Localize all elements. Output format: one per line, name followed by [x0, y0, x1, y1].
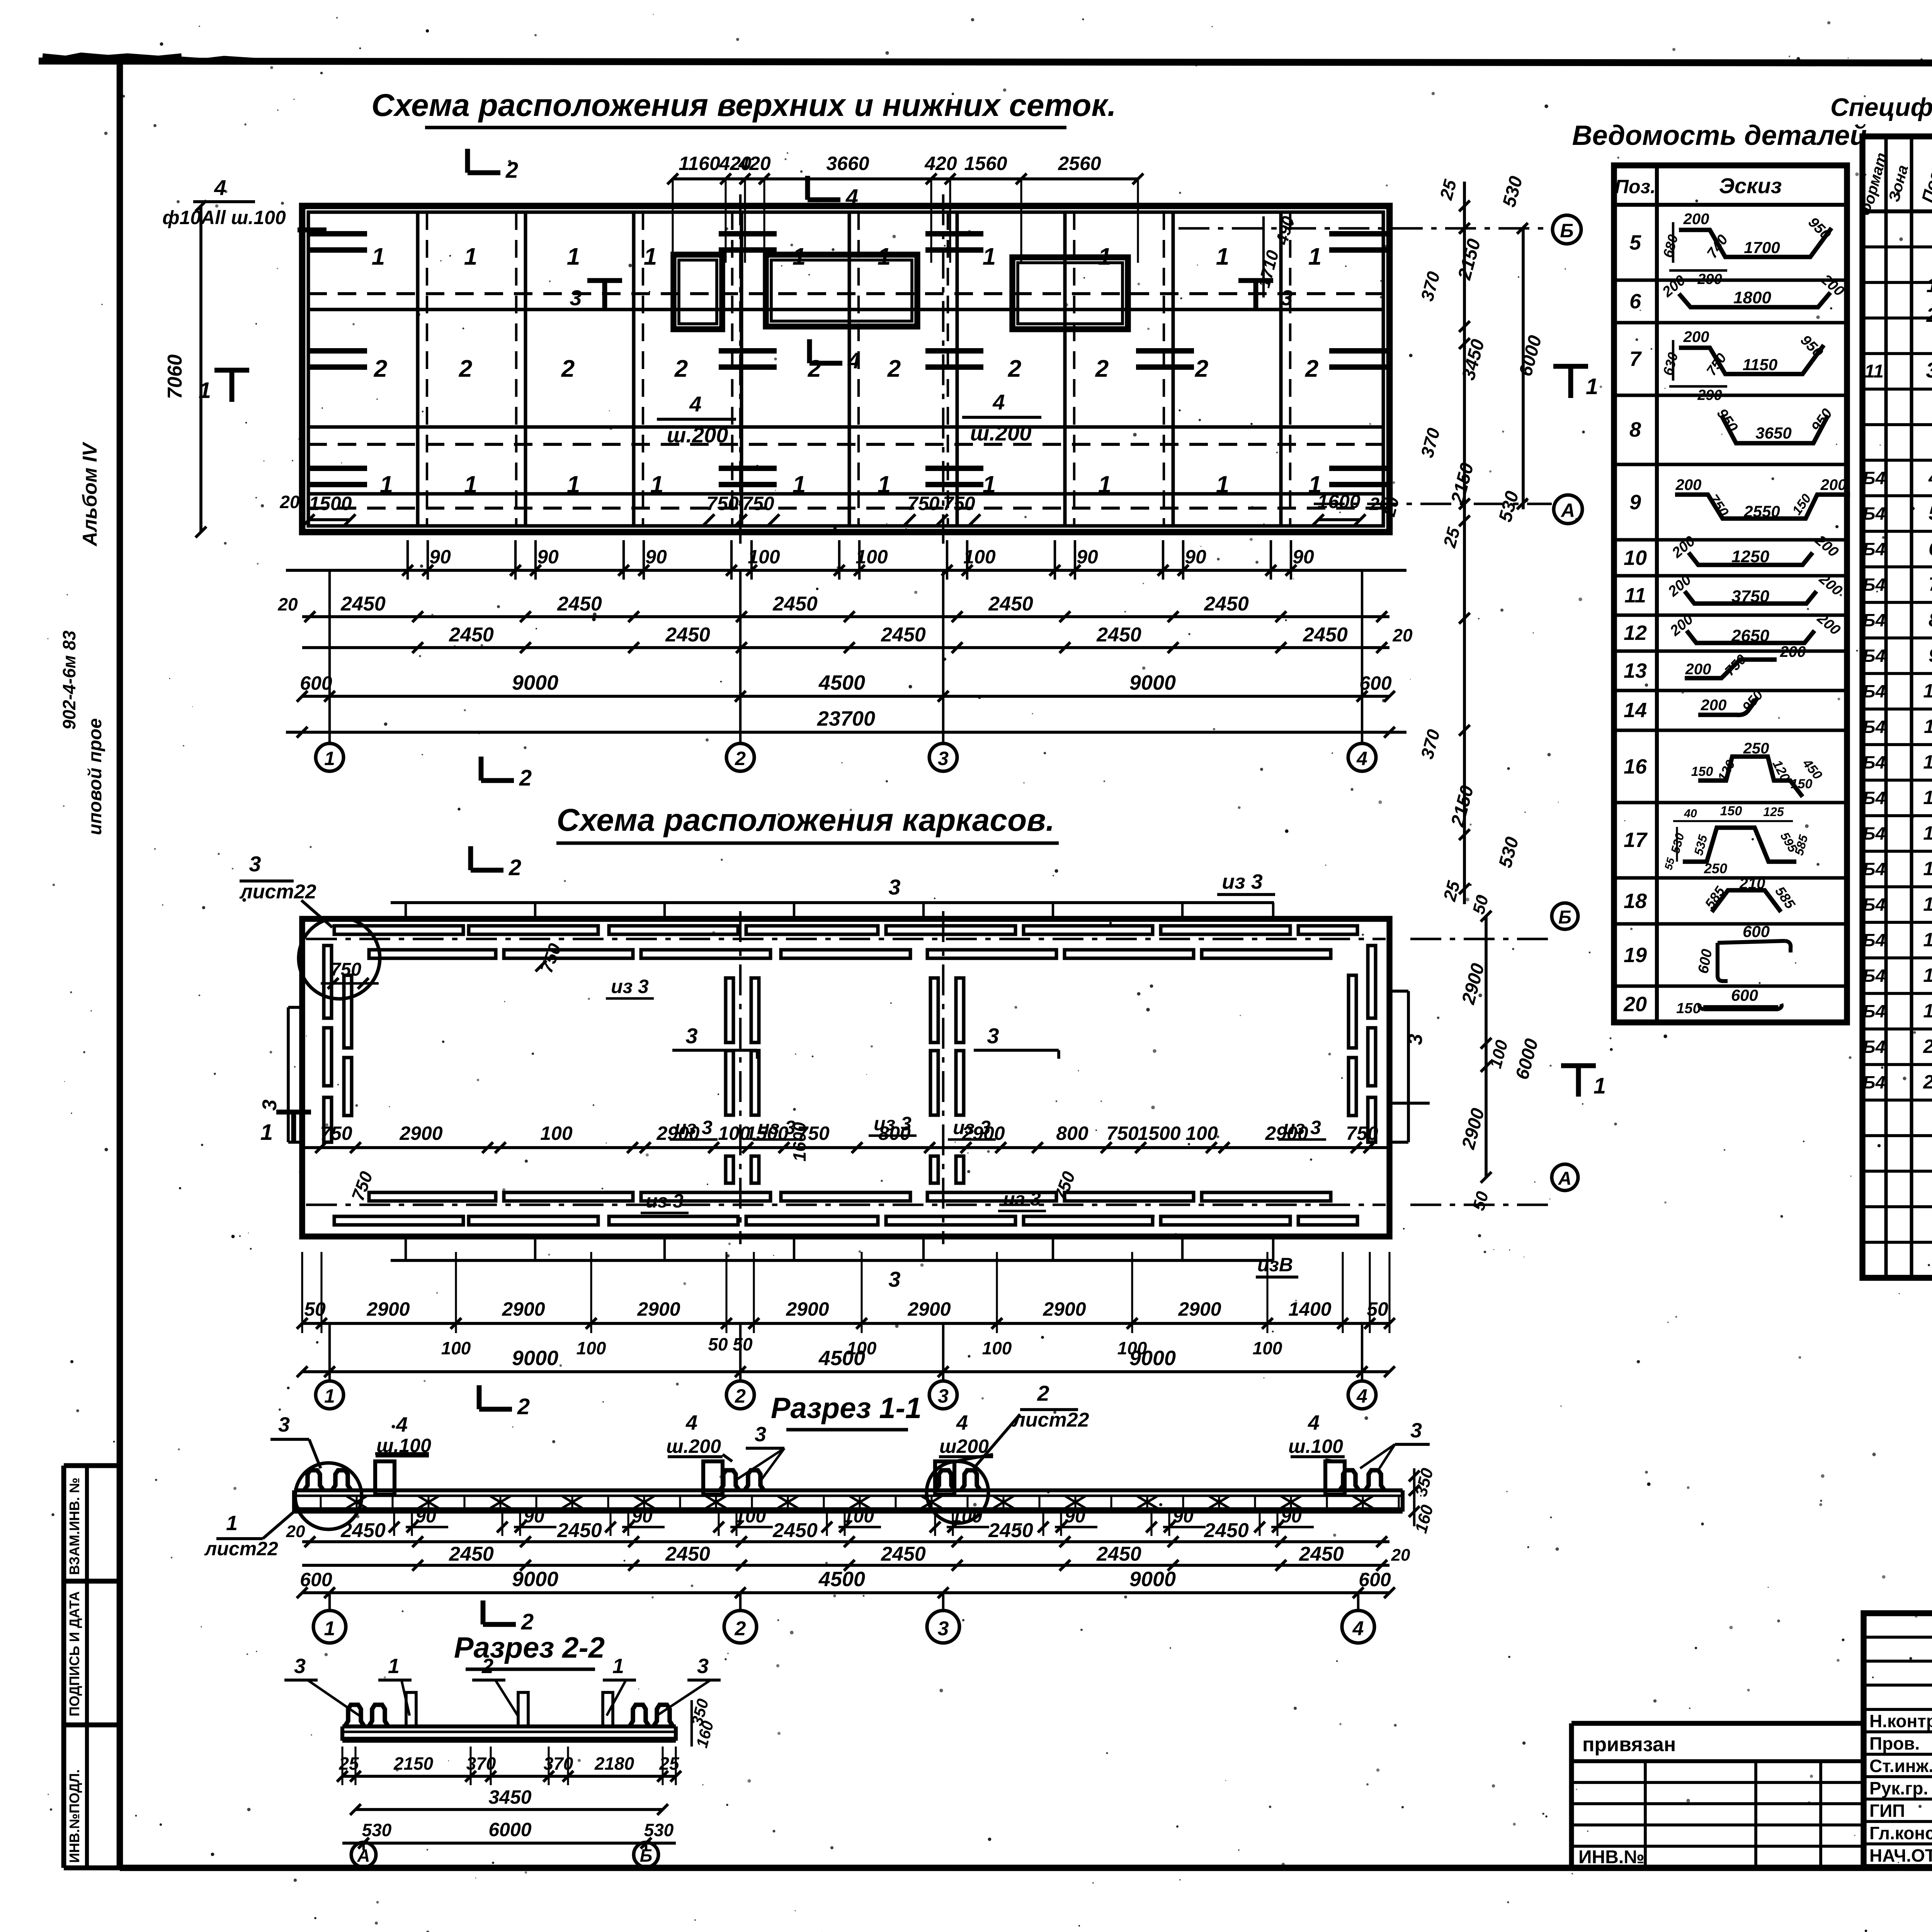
svg-text:20: 20	[1391, 1546, 1410, 1565]
specification contents	[1863, 214, 1932, 1271]
svg-text:2: 2	[481, 1655, 493, 1678]
svg-text:2450: 2450	[988, 593, 1033, 615]
svg-text:2: 2	[374, 355, 387, 382]
svg-text:Б4: Б4	[1863, 1037, 1885, 1057]
axis circles top plan	[316, 570, 1376, 771]
svg-text:ВЗАМ.ИНВ. №: ВЗАМ.ИНВ. №	[66, 1478, 82, 1575]
karkas right outside bracket	[1389, 991, 1430, 1142]
svg-text:2: 2	[735, 1385, 746, 1407]
section mark 2 below top plan	[481, 757, 532, 791]
svg-text:ИНВ.№: ИНВ.№	[1578, 1847, 1645, 1867]
svg-text:3: 3	[278, 1413, 290, 1436]
section 2-2 leader labels	[284, 1655, 721, 1716]
details table header	[1615, 173, 1782, 198]
svg-text:9: 9	[1629, 491, 1641, 514]
mesh edge tick bars	[309, 234, 1387, 485]
svg-text:Б: Б	[640, 1845, 653, 1866]
svg-text:4: 4	[1928, 467, 1932, 488]
svg-text:750: 750	[1106, 1122, 1139, 1144]
svg-text:17: 17	[1624, 828, 1648, 852]
svg-text:2900: 2900	[907, 1298, 951, 1320]
svg-text:200: 200	[1675, 476, 1702, 493]
labels 490 1710 opening3	[1255, 214, 1298, 298]
right labels 350 160 razrez22	[687, 1697, 717, 1750]
svg-text:2560: 2560	[1058, 153, 1101, 174]
svg-text:ш200: ш200	[939, 1435, 989, 1457]
details sketches	[1659, 211, 1850, 1017]
svg-text:1560: 1560	[964, 153, 1007, 174]
svg-text:4: 4	[1356, 748, 1367, 769]
svg-text:1: 1	[324, 1385, 335, 1407]
svg-text:Б4: Б4	[1863, 717, 1885, 737]
svg-text:ш.100: ш.100	[1288, 1435, 1343, 1457]
svg-text:1: 1	[464, 471, 477, 498]
svg-text:ГИП: ГИП	[1869, 1801, 1905, 1821]
svg-text:750: 750	[330, 959, 361, 980]
karkas left outside bracket	[259, 1007, 302, 1142]
svg-text:150: 150	[1691, 764, 1713, 779]
svg-text:530: 530	[644, 1820, 674, 1840]
svg-text:200: 200	[1683, 211, 1709, 228]
svg-text:7: 7	[1629, 347, 1642, 371]
svg-text:из 3: из 3	[646, 1190, 684, 1212]
label 4 sh200 left	[657, 392, 736, 447]
svg-text:Рук.гр.: Рук.гр.	[1869, 1778, 1928, 1798]
svg-text:1: 1	[878, 471, 891, 498]
svg-text:привязан: привязан	[1582, 1733, 1676, 1756]
svg-text:100: 100	[1253, 1338, 1282, 1358]
svg-text:6000: 6000	[488, 1819, 531, 1840]
svg-text:200: 200	[1820, 476, 1847, 493]
vertical karkas bars	[324, 946, 1376, 1183]
svg-text:2450: 2450	[557, 593, 602, 615]
svg-text:2450: 2450	[1204, 593, 1249, 615]
svg-text:Ст.инж.: Ст.инж.	[1869, 1756, 1932, 1776]
svg-text:Б: Б	[1560, 220, 1573, 241]
plan outer rectangle	[302, 206, 1389, 532]
svg-text:16: 16	[1923, 893, 1932, 915]
specification table grid	[1862, 136, 1932, 1278]
svg-text:14: 14	[1624, 699, 1647, 722]
svg-text:ИНВ.№ПОДЛ.: ИНВ.№ПОДЛ.	[66, 1769, 82, 1863]
title scheme of karkas layout	[556, 803, 1059, 843]
svg-text:9: 9	[1929, 645, 1932, 666]
svg-text:1: 1	[388, 1655, 400, 1678]
svg-text:210: 210	[1739, 875, 1765, 892]
svg-text:2900: 2900	[786, 1298, 829, 1320]
bottom dims razrez 2-2	[337, 1747, 681, 1849]
svg-text:2450: 2450	[340, 1519, 386, 1542]
vertical text Album IV	[79, 441, 101, 547]
svg-text:2450: 2450	[1303, 624, 1348, 646]
svg-text:21: 21	[1923, 1071, 1932, 1093]
svg-text:4: 4	[1356, 1385, 1367, 1407]
axis B circle karkas	[1410, 903, 1578, 939]
svg-text:из 3: из 3	[758, 1117, 796, 1138]
svg-text:1500: 1500	[1138, 1122, 1180, 1144]
svg-text:1: 1	[1098, 243, 1111, 270]
section mark 3 left	[570, 281, 622, 310]
svg-text:Поз.: Поз.	[1615, 176, 1656, 197]
svg-text:4: 4	[685, 1411, 697, 1434]
svg-text:15: 15	[1923, 858, 1932, 879]
svg-text:2650: 2650	[1731, 626, 1769, 645]
svg-text:7060: 7060	[164, 354, 186, 399]
svg-text:2: 2	[1008, 355, 1021, 382]
svg-text:1: 1	[1927, 274, 1932, 297]
svg-text:1: 1	[1308, 243, 1321, 270]
label 4 sh100 top left	[162, 175, 327, 230]
note kopiroval	[1828, 1930, 1932, 1932]
svg-text:ш.200: ш.200	[666, 1435, 721, 1457]
svg-text:Разрез 2-2: Разрез 2-2	[454, 1631, 605, 1664]
svg-text:750: 750	[706, 493, 739, 514]
svg-text:2: 2	[521, 1609, 534, 1634]
svg-text:Б4: Б4	[1863, 681, 1885, 701]
svg-text:4: 4	[992, 390, 1005, 414]
section 1-1 karkas hats	[295, 1461, 1387, 1529]
svg-text:Б4: Б4	[1863, 895, 1885, 915]
svg-text:3: 3	[888, 875, 900, 899]
privyazan table	[1571, 1723, 1864, 1867]
svg-text:3: 3	[570, 286, 582, 310]
svg-text:9000: 9000	[1129, 1568, 1176, 1591]
specification header	[1857, 151, 1932, 218]
svg-text:2450: 2450	[881, 1543, 926, 1565]
svg-text:из 3: из 3	[611, 976, 649, 997]
svg-text:Разрез 1-1: Разрез 1-1	[771, 1392, 922, 1425]
bottom bracket karkas group 3	[391, 1236, 1274, 1291]
svg-text:4500: 4500	[818, 1568, 865, 1591]
title razrez 2-2	[454, 1631, 605, 1669]
svg-text:23700: 23700	[817, 707, 875, 730]
svg-text:2900: 2900	[502, 1298, 545, 1320]
plan vertical panel joints	[418, 212, 1290, 526]
svg-text:1250: 1250	[1731, 547, 1769, 566]
svg-text:4: 4	[1352, 1617, 1364, 1640]
svg-text:3: 3	[1926, 358, 1932, 382]
left sidebar stamp table	[64, 1466, 120, 1868]
svg-text:ПОДПИСЬ И ДАТА: ПОДПИСЬ И ДАТА	[66, 1591, 82, 1716]
svg-text:150: 150	[1676, 1000, 1701, 1017]
svg-text:100: 100	[748, 546, 780, 568]
svg-text:Б4: Б4	[1863, 610, 1885, 630]
svg-text:4500: 4500	[818, 671, 865, 694]
svg-text:1800: 1800	[1733, 288, 1771, 307]
svg-text:Схема расположения каркасов.: Схема расположения каркасов.	[557, 803, 1055, 838]
axis A circle karkas	[1410, 1164, 1578, 1205]
svg-text:4: 4	[845, 185, 858, 210]
horizontal karkas bars	[334, 926, 1357, 1225]
section mark 1 right top plan	[1553, 366, 1598, 399]
bottom tick dims karkas	[297, 1252, 1395, 1358]
svg-text:2450: 2450	[1299, 1543, 1344, 1565]
svg-text:3: 3	[1404, 1034, 1427, 1045]
svg-text:лист22: лист22	[204, 1538, 278, 1560]
svg-text:из 3: из 3	[1003, 1188, 1041, 1210]
svg-text:2900: 2900	[637, 1298, 680, 1320]
svg-text:2: 2	[1305, 355, 1318, 382]
svg-text:9000: 9000	[1129, 1347, 1176, 1370]
svg-text:2900: 2900	[1043, 1298, 1086, 1320]
svg-text:1: 1	[983, 243, 996, 270]
vertical text project number	[59, 630, 79, 730]
svg-text:100: 100	[540, 1122, 573, 1144]
svg-text:лист22: лист22	[239, 881, 316, 903]
svg-text:20: 20	[286, 1522, 305, 1541]
svg-text:90: 90	[645, 546, 667, 568]
svg-text:90: 90	[524, 1506, 544, 1527]
title vedomost detaley	[1572, 120, 1867, 151]
svg-text:250: 250	[1704, 861, 1727, 876]
callout 3 list22 karkas	[239, 852, 380, 999]
svg-text:2: 2	[674, 355, 688, 382]
svg-text:600: 600	[1743, 922, 1770, 940]
svg-text:20: 20	[279, 492, 300, 512]
svg-text:8: 8	[1929, 609, 1932, 631]
section mark 4 top	[808, 176, 858, 210]
svg-text:20: 20	[1623, 993, 1647, 1016]
svg-text:3: 3	[697, 1655, 709, 1678]
callout 1 list22 razrez11	[204, 1507, 299, 1560]
svg-text:1: 1	[464, 243, 477, 270]
svg-text:370: 370	[544, 1753, 573, 1774]
bottom dimension rows razrez 1-1	[286, 1506, 1410, 1598]
svg-text:ф10Аll ш.100: ф10Аll ш.100	[162, 207, 286, 228]
svg-text:100: 100	[577, 1338, 606, 1358]
svg-text:90: 90	[1077, 546, 1098, 568]
svg-text:12: 12	[1923, 751, 1932, 773]
svg-text:19: 19	[1624, 944, 1647, 967]
svg-text:2: 2	[1195, 355, 1208, 382]
svg-text:600: 600	[1731, 986, 1758, 1004]
signature table	[1864, 1613, 1932, 1867]
svg-text:2: 2	[1037, 1381, 1049, 1405]
svg-text:Б4: Б4	[1863, 966, 1885, 986]
mesh number labels	[372, 243, 1321, 498]
top dimension chain	[667, 153, 1143, 263]
svg-text:ш.200: ш.200	[667, 423, 728, 447]
svg-text:Н.контр.: Н.контр.	[1869, 1711, 1932, 1731]
svg-text:200: 200	[1683, 328, 1709, 345]
svg-text:3660: 3660	[826, 153, 869, 174]
svg-text:100: 100	[982, 1338, 1012, 1358]
axis circles razrez 1-1	[313, 1593, 1374, 1643]
section 1-1 slab	[294, 1490, 1403, 1512]
title razrez 1-1	[771, 1392, 922, 1430]
svg-text:40: 40	[1684, 807, 1697, 820]
svg-text:90: 90	[1281, 1506, 1302, 1527]
karkas plan rectangle	[302, 919, 1389, 1236]
svg-text:1: 1	[644, 243, 657, 270]
svg-text:1: 1	[372, 243, 385, 270]
svg-text:2450: 2450	[449, 624, 494, 646]
opening 3	[1012, 257, 1128, 329]
svg-text:Схема расположения верхних и н: Схема расположения верхних и нижних сето…	[371, 88, 1116, 123]
svg-text:А: А	[1558, 1168, 1572, 1189]
svg-text:2450: 2450	[1204, 1519, 1249, 1542]
svg-text:200: 200	[1780, 643, 1806, 660]
top bracket karkas group 3	[391, 875, 1274, 920]
svg-text:600: 600	[1359, 672, 1392, 694]
svg-text:1: 1	[1594, 1073, 1606, 1099]
section mark 4 mid	[810, 339, 860, 373]
svg-text:2900: 2900	[1178, 1298, 1221, 1320]
svg-text:из 3: из 3	[675, 1117, 713, 1138]
svg-text:2450: 2450	[449, 1543, 494, 1565]
svg-text:изВ: изВ	[1257, 1254, 1293, 1276]
svg-text:1: 1	[878, 243, 891, 270]
svg-text:1160: 1160	[679, 153, 720, 174]
svg-text:200: 200	[1701, 697, 1727, 714]
svg-text:2: 2	[519, 765, 532, 791]
svg-text:1: 1	[567, 471, 580, 498]
svg-text:лист22: лист22	[1012, 1409, 1089, 1431]
svg-text:3: 3	[938, 748, 949, 769]
svg-text:4: 4	[847, 348, 860, 373]
svg-text:Б4: Б4	[1863, 539, 1885, 559]
svg-text:14: 14	[1923, 822, 1932, 844]
svg-text:Спецификация к схемам располож: Спецификация к схемам расположения армат…	[1830, 93, 1932, 121]
svg-text:Копировал и Каренкоя: Копировал и Каренкоя	[1828, 1930, 1932, 1932]
svg-text:1: 1	[567, 243, 580, 270]
label 750 750 right	[905, 493, 980, 525]
svg-text:2150: 2150	[393, 1753, 434, 1774]
svg-text:2: 2	[561, 355, 575, 382]
opening 2	[766, 255, 917, 327]
svg-text:800: 800	[1056, 1122, 1088, 1144]
svg-text:290: 290	[1697, 387, 1722, 403]
svg-text:1400: 1400	[1288, 1298, 1331, 1320]
svg-text:8: 8	[1629, 418, 1641, 441]
axis A circle top plan	[1314, 495, 1582, 524]
svg-text:1: 1	[983, 471, 996, 498]
label 3 leaders karkas	[672, 1024, 1059, 1059]
svg-text:2450: 2450	[881, 624, 926, 646]
label 750 corners karkas	[321, 940, 1079, 1203]
section mark 2 top karkas	[471, 846, 521, 880]
svg-text:750: 750	[943, 493, 975, 514]
svg-text:18: 18	[1624, 889, 1647, 913]
section 1-1 leader labels	[270, 1411, 1430, 1480]
svg-text:1: 1	[226, 1512, 238, 1535]
svg-text:Б4: Б4	[1863, 468, 1885, 488]
iz3 label top right	[1217, 870, 1275, 895]
svg-text:1500: 1500	[309, 493, 352, 514]
svg-text:3: 3	[888, 1267, 900, 1291]
bottom dimension rows top plan	[277, 540, 1413, 738]
svg-text:3: 3	[938, 1385, 949, 1407]
svg-text:150: 150	[1791, 777, 1813, 791]
svg-text:1: 1	[1216, 243, 1229, 270]
svg-text:100: 100	[963, 546, 996, 568]
svg-text:7: 7	[1929, 573, 1932, 595]
svg-text:2550: 2550	[1743, 502, 1780, 520]
karkas mid dimension line	[302, 1122, 1389, 1162]
svg-text:А: А	[1560, 500, 1575, 521]
svg-text:1700: 1700	[1744, 238, 1780, 257]
svg-text:2450: 2450	[772, 1519, 818, 1542]
svg-text:Эскиз: Эскиз	[1719, 173, 1782, 198]
svg-text:16: 16	[1624, 755, 1647, 778]
svg-text:Б4: Б4	[1863, 1001, 1885, 1021]
section 2-2 slab and hats	[342, 1692, 676, 1741]
svg-text:3: 3	[294, 1655, 306, 1678]
svg-text:3: 3	[1281, 286, 1293, 310]
svg-text:90: 90	[1065, 1506, 1085, 1527]
svg-text:12: 12	[1624, 621, 1647, 645]
svg-text:420: 420	[738, 153, 771, 174]
svg-text:ш.200: ш.200	[970, 421, 1032, 445]
section mark 2 below razrez11	[483, 1600, 534, 1634]
svg-text:2450: 2450	[772, 593, 818, 615]
svg-text:2450: 2450	[988, 1519, 1033, 1542]
svg-text:1: 1	[260, 1120, 273, 1145]
svg-text:600: 600	[1359, 1569, 1391, 1590]
iz3 labels karkas	[606, 976, 1326, 1213]
svg-text:2450: 2450	[1096, 1543, 1141, 1565]
svg-text:4: 4	[396, 1413, 408, 1436]
svg-text:из 3: из 3	[1222, 870, 1263, 893]
svg-text:2450: 2450	[665, 624, 710, 646]
svg-text:370: 370	[466, 1753, 496, 1774]
svg-text:2450: 2450	[1096, 624, 1141, 646]
svg-text:750: 750	[1346, 1122, 1378, 1144]
karkas plan axis dashdots	[306, 911, 1386, 1244]
opening 1	[673, 255, 722, 329]
svg-text:3: 3	[755, 1423, 766, 1446]
svg-text:125: 125	[1763, 805, 1784, 819]
section mark 2 top	[468, 149, 518, 183]
svg-text:530: 530	[362, 1820, 392, 1840]
svg-text:9000: 9000	[512, 1568, 558, 1591]
svg-text:100: 100	[855, 546, 888, 568]
svg-text:Гл.конст: Гл.конст	[1869, 1823, 1932, 1843]
section mark 2 below karkas	[479, 1385, 530, 1419]
svg-text:4: 4	[214, 175, 226, 200]
svg-text:1: 1	[612, 1655, 624, 1678]
details table grid	[1614, 165, 1847, 1022]
svg-text:90: 90	[1173, 1506, 1194, 1527]
svg-text:2: 2	[1926, 304, 1932, 327]
svg-text:Б4: Б4	[1863, 646, 1885, 666]
svg-text:Б4: Б4	[1863, 575, 1885, 595]
section mark 3 right	[1238, 281, 1293, 310]
svg-text:2180: 2180	[594, 1753, 634, 1774]
svg-text:иповой прое: иповой прое	[85, 718, 105, 835]
svg-text:2: 2	[459, 355, 472, 382]
svg-text:из 3: из 3	[953, 1117, 991, 1138]
svg-text:11: 11	[1624, 584, 1646, 607]
svg-text:2900: 2900	[366, 1298, 410, 1320]
svg-text:Б4: Б4	[1863, 823, 1885, 844]
svg-text:2: 2	[509, 855, 521, 880]
svg-text:3450: 3450	[488, 1786, 531, 1808]
svg-text:50: 50	[1367, 1298, 1388, 1320]
details position numbers	[1623, 231, 1648, 1016]
plan axis dashdot verticals	[740, 194, 943, 544]
svg-text:20: 20	[1923, 1036, 1932, 1057]
svg-text:3: 3	[249, 852, 261, 876]
axis B circle top plan	[1179, 215, 1581, 244]
svg-text:2: 2	[887, 355, 901, 382]
svg-text:1: 1	[1216, 471, 1229, 498]
section 1-1 stub outlets	[375, 1461, 1345, 1495]
svg-text:150: 150	[1720, 804, 1742, 818]
svg-text:Б: Б	[1558, 907, 1571, 928]
svg-text:750: 750	[742, 493, 774, 514]
label 1600 bottom right	[1313, 491, 1389, 525]
